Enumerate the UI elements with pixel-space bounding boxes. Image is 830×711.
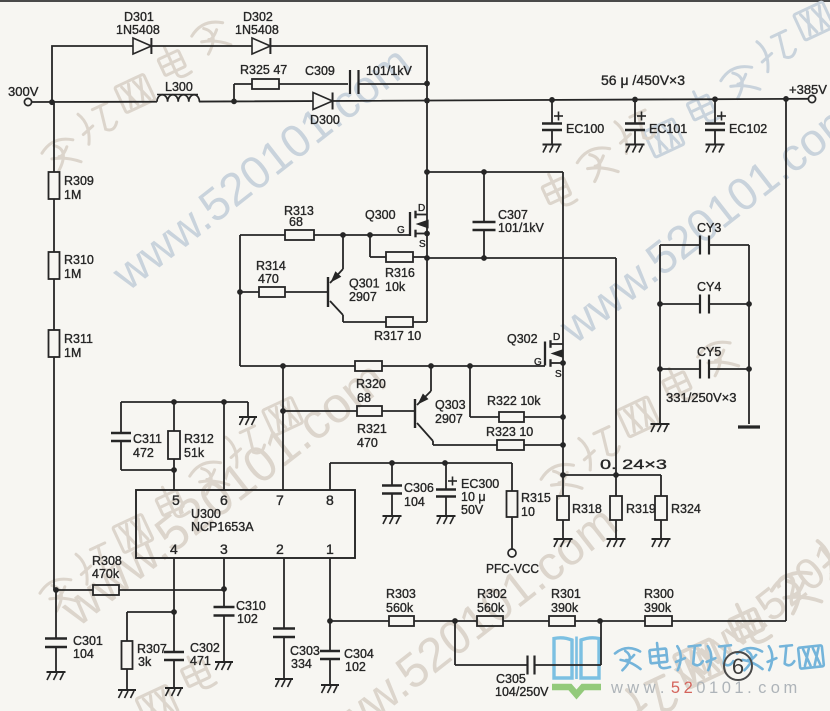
svg-text:R323 10: R323 10	[486, 425, 533, 439]
resistor R309	[49, 172, 60, 199]
svg-text:68: 68	[289, 215, 303, 229]
svg-text:CY5: CY5	[697, 345, 721, 359]
resistor R320	[355, 361, 382, 371]
svg-text:R308: R308	[92, 554, 122, 568]
wire CY right rail	[748, 245, 750, 424]
svg-text:o: o	[771, 679, 780, 697]
svg-text:101/1kV: 101/1kV	[498, 221, 545, 235]
resistor R319	[615, 475, 617, 496]
svg-text:471: 471	[190, 654, 211, 668]
svg-text:EC101: EC101	[649, 122, 687, 136]
resistor R323	[433, 444, 497, 446]
diode D300	[313, 92, 333, 109]
MOSFET Q302	[544, 342, 546, 366]
svg-text:G: G	[534, 357, 542, 368]
svg-text:470k: 470k	[92, 567, 120, 581]
inductor L300	[157, 95, 199, 102]
svg-text:R324: R324	[671, 502, 701, 516]
resistor R312	[173, 402, 175, 431]
svg-text:470: 470	[357, 436, 378, 450]
wire right rail +385V to bottom	[785, 99, 787, 621]
svg-text:472: 472	[133, 446, 154, 460]
svg-text:3k: 3k	[138, 655, 152, 669]
junction Q301 emitter node	[340, 232, 346, 238]
resistor R317	[343, 321, 386, 323]
wire R313 left rail	[239, 235, 241, 366]
resistor R300	[645, 616, 672, 626]
ground CY right	[738, 425, 760, 428]
resistor R310	[49, 252, 60, 279]
resistor R308	[53, 587, 59, 593]
wire pin7	[282, 366, 284, 490]
svg-text:C305: C305	[496, 672, 526, 686]
resistor R315	[511, 463, 513, 491]
svg-text:0: 0	[696, 679, 705, 697]
svg-text:CY4: CY4	[697, 280, 721, 294]
svg-text:6: 6	[732, 654, 744, 679]
svg-text:2907: 2907	[435, 412, 463, 426]
PFC-VCC terminal	[508, 549, 516, 557]
svg-text:1M: 1M	[64, 267, 81, 281]
resistor R318	[562, 475, 564, 496]
capacitor C309	[349, 70, 351, 94]
svg-text:R309: R309	[64, 174, 94, 188]
wire left divider rail	[53, 102, 55, 172]
capacitor EC300	[445, 463, 447, 489]
ground CY left	[651, 423, 670, 425]
junction L300 output	[231, 98, 237, 104]
capacitor EC102	[712, 96, 718, 102]
wire Q302 source rail	[562, 363, 564, 475]
svg-text:102: 102	[345, 660, 366, 674]
svg-text:10: 10	[521, 505, 535, 519]
wire top diode branch	[52, 46, 427, 102]
svg-text:R301: R301	[551, 587, 581, 601]
svg-text:+385V: +385V	[789, 82, 827, 97]
capacitor C305	[454, 621, 456, 665]
capacitor EC100	[549, 97, 555, 103]
resistor R322	[469, 366, 471, 417]
svg-text:R307: R307	[137, 642, 167, 656]
svg-text:c: c	[758, 679, 766, 697]
svg-text:R320: R320	[356, 377, 386, 391]
svg-text:470: 470	[258, 272, 279, 286]
svg-text:R314: R314	[256, 259, 286, 273]
svg-text:R311: R311	[64, 332, 93, 346]
svg-text:3: 3	[220, 541, 228, 557]
resistor R314	[237, 289, 243, 295]
capacitor CY5	[657, 366, 663, 372]
resistor R311	[49, 330, 60, 357]
transistor Q303	[414, 399, 416, 428]
svg-text:R316: R316	[385, 266, 415, 280]
svg-text:10k: 10k	[385, 280, 406, 294]
transistor Q301	[327, 277, 329, 307]
junction C309 node	[424, 81, 430, 87]
resistor R324	[660, 475, 662, 496]
svg-text:102: 102	[237, 612, 258, 626]
svg-text:101/1kV: 101/1kV	[366, 64, 413, 78]
capacitor C303	[273, 627, 295, 629]
resistor R321	[280, 408, 286, 414]
resistor R303	[389, 616, 414, 626]
svg-text:w: w	[643, 679, 656, 697]
svg-text:D300: D300	[310, 113, 340, 127]
svg-text:2907: 2907	[349, 290, 377, 304]
wire current sense node	[560, 472, 566, 478]
svg-text:5: 5	[671, 679, 680, 697]
svg-text:CY3: CY3	[697, 221, 721, 235]
IC U300 NCP1653A	[136, 490, 355, 558]
svg-text:C310: C310	[236, 599, 266, 613]
svg-text:R310: R310	[64, 253, 94, 267]
svg-text:R325 47: R325 47	[240, 63, 287, 77]
capacitor C311	[120, 402, 122, 433]
svg-text:Q300: Q300	[365, 208, 396, 222]
wire pin5	[173, 470, 175, 490]
svg-text:C306: C306	[404, 481, 434, 495]
svg-text:1M: 1M	[64, 346, 81, 360]
svg-text:PFC-VCC: PFC-VCC	[486, 561, 539, 576]
svg-text:.: .	[660, 679, 665, 697]
wire pin1 node	[329, 558, 331, 621]
svg-text:C304: C304	[344, 647, 374, 661]
svg-text:2: 2	[276, 541, 284, 557]
svg-text:Q301: Q301	[349, 277, 380, 291]
svg-text:50V: 50V	[461, 503, 484, 517]
wire Q300 drain node	[426, 84, 428, 173]
svg-text:1: 1	[326, 541, 334, 557]
svg-text:R318: R318	[572, 502, 602, 516]
svg-text:51k: 51k	[184, 446, 205, 460]
svg-text:R303: R303	[386, 587, 416, 601]
wire 300V bus	[32, 101, 157, 103]
wire pin4 node	[173, 558, 175, 612]
wire Q302 drain rail	[562, 172, 564, 344]
svg-text:C302: C302	[190, 641, 220, 655]
svg-text:4: 4	[170, 541, 178, 557]
svg-text:1: 1	[734, 679, 743, 697]
svg-text:R317 10: R317 10	[374, 329, 421, 343]
resistor R302	[477, 616, 503, 626]
svg-text:1N5408: 1N5408	[116, 23, 160, 37]
svg-text:2: 2	[684, 679, 693, 697]
resistor R313	[240, 234, 285, 236]
svg-text:S: S	[555, 369, 562, 380]
svg-text:R302: R302	[477, 587, 507, 601]
svg-text:w: w	[626, 679, 639, 697]
diode D301	[133, 38, 151, 54]
svg-text:R322 10k: R322 10k	[487, 394, 541, 408]
svg-text:56 μ /450V×3: 56 μ /450V×3	[601, 73, 685, 88]
wire pin2 node	[283, 558, 285, 628]
svg-text:L300: L300	[165, 80, 193, 94]
svg-text:EC100: EC100	[566, 122, 604, 136]
svg-text:C307: C307	[498, 208, 528, 222]
svg-text:10 μ: 10 μ	[461, 490, 486, 504]
capacitor C301	[55, 590, 57, 638]
svg-text:R319: R319	[626, 502, 656, 516]
+385V output terminal	[783, 96, 789, 102]
capacitor CY4	[657, 301, 663, 307]
MOSFET Q300	[409, 212, 411, 236]
svg-text:6: 6	[220, 492, 228, 508]
junction PFC drain top	[424, 98, 430, 104]
svg-text:560k: 560k	[386, 601, 414, 615]
capacitor C302	[173, 612, 175, 652]
svg-text:8: 8	[326, 492, 334, 508]
svg-text:C301: C301	[73, 634, 103, 648]
svg-text:560k: 560k	[477, 601, 505, 615]
resistor R307	[126, 612, 128, 641]
svg-text:104: 104	[73, 647, 94, 661]
capacitor C307	[483, 172, 485, 222]
svg-text:D: D	[553, 332, 560, 343]
300V input terminal	[24, 98, 31, 105]
svg-text:C311: C311	[133, 432, 162, 446]
svg-text:300V: 300V	[8, 84, 39, 99]
svg-text:C303: C303	[290, 644, 320, 658]
svg-text:R300: R300	[644, 587, 674, 601]
svg-text:w: w	[610, 679, 623, 697]
svg-text:D301: D301	[124, 10, 154, 24]
svg-text:D: D	[418, 203, 425, 214]
svg-text:R312: R312	[184, 432, 214, 446]
junction 300V node	[49, 99, 55, 105]
svg-text:.: .	[747, 679, 752, 697]
svg-text:EC300: EC300	[461, 477, 499, 491]
diode D302	[252, 38, 270, 54]
svg-text:5: 5	[172, 492, 180, 508]
wire CY left rail	[659, 245, 661, 423]
svg-text:1N5408: 1N5408	[235, 23, 279, 37]
svg-text:7: 7	[276, 492, 284, 508]
svg-text:R321: R321	[357, 422, 387, 436]
capacitor CY3	[660, 244, 700, 246]
svg-text:334: 334	[291, 657, 312, 671]
resistor R325	[233, 84, 235, 101]
capacitor EC101	[632, 97, 638, 103]
resistor R316	[369, 235, 371, 257]
svg-text:C309: C309	[305, 64, 335, 78]
capacitor C310	[214, 606, 235, 608]
svg-text:1: 1	[709, 679, 718, 697]
svg-text:104/250V: 104/250V	[495, 685, 549, 699]
svg-text:68: 68	[357, 391, 371, 405]
svg-text:EC102: EC102	[729, 122, 767, 136]
svg-text:104: 104	[404, 495, 425, 509]
svg-text:390k: 390k	[551, 601, 579, 615]
svg-text:Q302: Q302	[507, 332, 538, 346]
ground pin6 node	[247, 402, 249, 416]
junction R316 node	[367, 232, 373, 238]
wire pin6 node	[121, 401, 248, 403]
wire Q300 source node	[426, 234, 428, 323]
wire pin3 node	[223, 558, 225, 607]
svg-text:390k: 390k	[644, 601, 672, 615]
svg-text:331/250V×3: 331/250V×3	[666, 390, 736, 405]
wire pin8 node	[329, 463, 331, 490]
capacitor C304	[329, 621, 331, 651]
svg-text:D302: D302	[243, 10, 273, 24]
svg-text:R315: R315	[521, 491, 551, 505]
svg-text:Q303: Q303	[435, 398, 466, 412]
resistor R301	[549, 616, 575, 626]
capacitor C306	[391, 463, 393, 485]
svg-text:U300: U300	[191, 507, 221, 521]
svg-text:m: m	[784, 679, 798, 697]
svg-text:0: 0	[722, 679, 731, 697]
svg-text:1M: 1M	[64, 188, 81, 202]
wire Q302 gate bus	[240, 365, 355, 367]
svg-text:0. 24×3: 0. 24×3	[600, 457, 667, 472]
svg-text:S: S	[419, 239, 426, 250]
wire pin6	[223, 402, 225, 490]
wire bottom feedback bus	[330, 620, 389, 622]
svg-text:NCP1653A: NCP1653A	[191, 520, 254, 534]
